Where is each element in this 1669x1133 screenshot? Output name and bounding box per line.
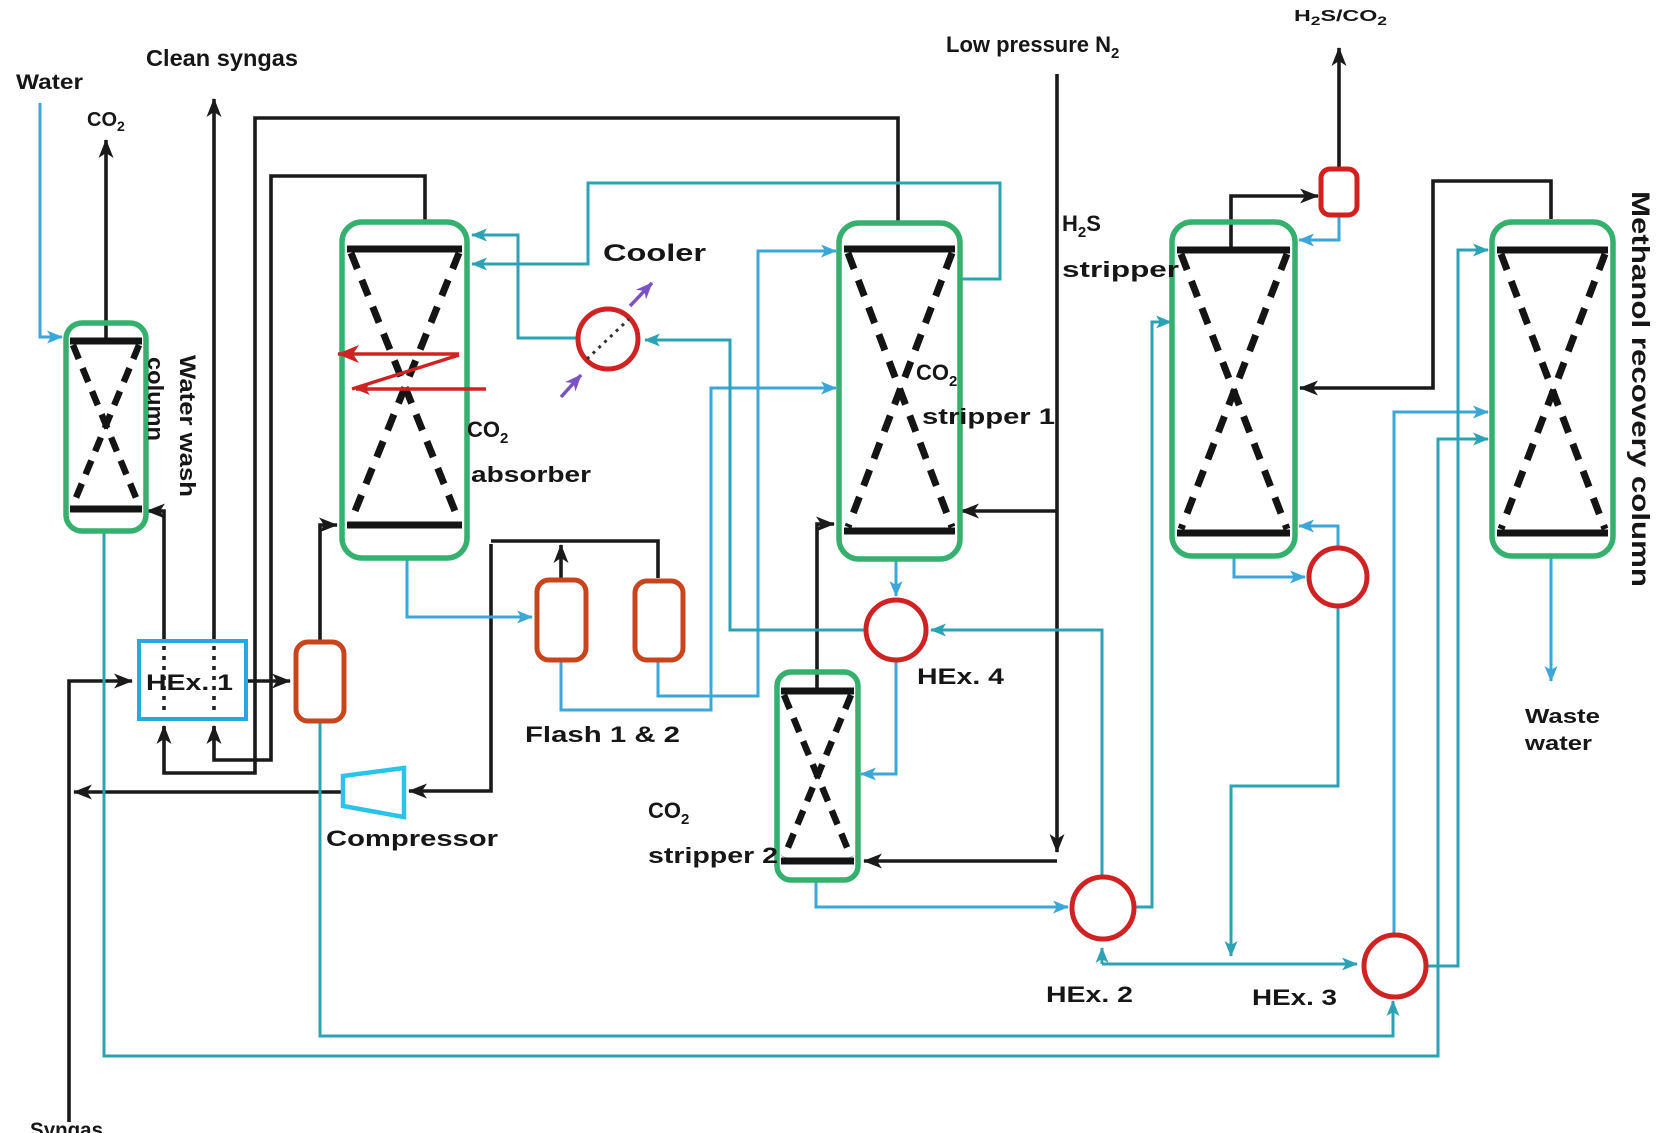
wire: compressor discharge to syngas line xyxy=(74,790,342,794)
svg-text:Cooler: Cooler xyxy=(603,240,706,267)
svg-text:stripper: stripper xyxy=(1062,257,1180,282)
wire: flash 2 bottoms to stripper 1 (top) xyxy=(658,251,836,696)
svg-text:water: water xyxy=(1524,733,1593,755)
label: Water xyxy=(16,71,83,94)
label: HEx. 2 xyxy=(1046,982,1133,1007)
label: H2S/CO2 xyxy=(1294,8,1387,28)
wire: water wash bottoms (upper sky segment) xyxy=(103,531,106,1054)
wire: N2 branch to CO2 stripper 1 xyxy=(961,509,1057,513)
KO drum (orange vessel after HEx.1) xyxy=(296,642,344,721)
HEx. 2 circle xyxy=(1072,877,1134,939)
label: Syngas (clipped at bottom) xyxy=(30,1119,103,1133)
label: Water wash column (vertical) xyxy=(143,355,200,497)
wire: HEx.2 to HEx.4 xyxy=(931,630,1102,876)
reboiler circle (H2S stripper) xyxy=(1309,548,1367,606)
wire: flash vapors to compressor inlet xyxy=(409,544,491,791)
label: HEx. 3 xyxy=(1252,985,1337,1010)
label: CO2 absorber xyxy=(467,417,592,487)
label: HEx. 1 xyxy=(146,670,233,695)
svg-text:Syngas: Syngas xyxy=(30,1119,103,1133)
label: Methanol recovery column (vertical) xyxy=(1626,191,1654,587)
label: CO2 (water wash overhead) xyxy=(87,109,125,134)
label: Low pressure N2 xyxy=(946,32,1119,62)
wire: cooler outlet to absorber xyxy=(472,235,578,338)
CO2 absorber column xyxy=(342,222,467,558)
wire: methanol return to water wash column bottom xyxy=(147,511,164,640)
HEx. 4 circle xyxy=(866,600,926,660)
wire: syngas feed riser xyxy=(69,681,132,1122)
svg-text:CO2: CO2 xyxy=(467,417,508,447)
wire: KO drum bottoms (upper sky segment) xyxy=(319,722,322,1034)
wire: methanol column bottoms (waste water) xyxy=(1550,557,1553,681)
CO2 stripper 1 column xyxy=(839,223,960,559)
wire: HEx.2 to H2S stripper xyxy=(1134,322,1171,907)
svg-text:H2S/CO2: H2S/CO2 xyxy=(1294,8,1387,28)
label: Waste water xyxy=(1524,706,1600,755)
svg-text:column: column xyxy=(143,357,168,441)
flash drum 2 xyxy=(635,581,683,660)
wire: low pressure N2 main xyxy=(864,74,1057,861)
svg-text:Water wash: Water wash xyxy=(175,355,200,497)
wire: HEx.4 to stripper 2 xyxy=(861,661,896,774)
wire: warm methanol header to HEx.3 xyxy=(1102,948,1357,964)
absorber internal cooling coil (red zigzag) xyxy=(338,354,486,389)
CO2 stripper 2 column xyxy=(777,672,858,880)
wire: HEx.1 outlet to KO drum xyxy=(247,679,290,683)
wire: stripper 1 overhead to absorber xyxy=(472,183,1000,279)
wire: water wash bottoms to methanol recovery column (lower) xyxy=(104,439,1488,1056)
svg-text:HEx. 1: HEx. 1 xyxy=(146,670,233,695)
svg-text:Clean syngas: Clean syngas xyxy=(146,45,298,71)
wire: methanol recovery column feed loop xyxy=(1300,181,1551,388)
svg-text:stripper 2: stripper 2 xyxy=(648,843,778,868)
svg-text:Waste: Waste xyxy=(1525,706,1600,728)
wire: H2S stripper top to overhead drum xyxy=(1231,196,1318,249)
label: Compressor xyxy=(326,826,499,851)
compressor xyxy=(343,768,404,817)
wire: overhead drum bottoms to H2S stripper xyxy=(1299,216,1339,240)
svg-text:H2S: H2S xyxy=(1062,211,1101,241)
label: HEx. 4 xyxy=(917,664,1005,689)
svg-text:CO2: CO2 xyxy=(87,109,125,134)
svg-text:Low pressure N2: Low pressure N2 xyxy=(946,32,1119,62)
flash drum 1 xyxy=(537,580,586,660)
cooler circle xyxy=(561,283,652,397)
wire: water feed xyxy=(40,103,62,337)
wire: H2S stripper bottoms to reboiler xyxy=(1234,557,1305,577)
wire: HEx.1 cold loop A (to CO2 stripper 1 top) xyxy=(164,118,898,773)
wire: HEx.3 to methanol column top xyxy=(1426,250,1488,966)
wire: reboiler return to H2S stripper xyxy=(1299,526,1338,547)
wire: flash 1 vapor riser xyxy=(559,545,563,579)
wire: stripper 1 bottoms to HEx.4 xyxy=(895,559,898,596)
wire: CO2 off-gas from water wash column xyxy=(104,140,108,340)
svg-text:CO2: CO2 xyxy=(648,798,689,828)
svg-text:stripper 1: stripper 1 xyxy=(922,404,1055,429)
label: CO2 stripper 1 xyxy=(916,360,1055,429)
label: Flash 1 & 2 xyxy=(525,722,680,747)
svg-text:absorber: absorber xyxy=(471,462,592,487)
svg-text:Flash 1 & 2: Flash 1 & 2 xyxy=(525,722,680,747)
wire: clean syngas line xyxy=(212,99,216,640)
water wash column xyxy=(66,323,146,531)
label: H2S stripper xyxy=(1062,211,1180,282)
wire: HEx.4 outlet to cooler xyxy=(645,340,866,630)
wire: KO drum bottoms to HEx.3 xyxy=(320,722,1393,1036)
svg-text:HEx. 3: HEx. 3 xyxy=(1252,985,1337,1010)
methanol recovery column xyxy=(1492,222,1613,556)
wire: HEx.3 to methanol column (upper) xyxy=(1394,412,1488,934)
svg-text:HEx. 2: HEx. 2 xyxy=(1046,982,1133,1007)
wire: flash vapor header xyxy=(491,541,658,578)
wire: absorber bottoms to Flash 1 xyxy=(407,558,532,617)
HEx. 1 box xyxy=(139,641,246,719)
wire: flash 1 bottoms to stripper 1 (mid) xyxy=(561,388,836,710)
svg-text:Water: Water xyxy=(16,71,83,94)
label: Cooler xyxy=(603,240,706,267)
svg-text:CO2: CO2 xyxy=(916,360,957,390)
HEx. 3 circle xyxy=(1364,935,1426,997)
label: Clean syngas xyxy=(146,45,298,71)
svg-text:Compressor: Compressor xyxy=(326,826,499,851)
H2S/CO2 overhead drum xyxy=(1321,169,1357,215)
svg-text:Methanol recovery column: Methanol recovery column xyxy=(1626,191,1654,587)
wire: HEx.1 cold loop B (to absorber top) xyxy=(214,176,425,760)
wire: stripper 2 bottoms to HEx.2 xyxy=(816,881,1068,907)
wire: reboiler bottoms drop xyxy=(1231,607,1338,956)
label: CO2 stripper 2 xyxy=(648,798,778,868)
svg-text:HEx. 4: HEx. 4 xyxy=(917,664,1005,689)
wire: CO2 stripper 2 top to stripper 1 bottom xyxy=(817,524,834,688)
H2S stripper column xyxy=(1172,222,1295,556)
wire: KO drum top to absorber bottom xyxy=(320,525,337,641)
wire: H2S/CO2 off-gas xyxy=(1337,48,1341,168)
